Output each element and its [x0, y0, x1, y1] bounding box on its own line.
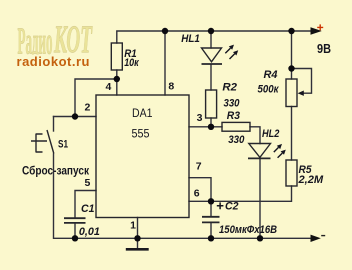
wire pin 6 node to C2 — [210, 201, 212, 216]
wire C2 to bottom rail — [210, 223, 212, 238]
svg-text:330: 330 — [228, 134, 245, 146]
node pin4 junction — [114, 76, 120, 82]
label - (minus terminal) — [321, 235, 325, 237]
svg-text:555: 555 — [132, 129, 150, 141]
svg-text:0,01: 0,01 — [79, 226, 100, 238]
resistor R5 — [286, 160, 297, 186]
wire R2 bottom to pin 3 node — [210, 118, 212, 127]
svg-text:2,2М: 2,2М — [297, 174, 324, 186]
resistor R1 — [111, 43, 122, 70]
svg-text:radiokot.ru: radiokot.ru — [17, 54, 90, 69]
svg-text:500к: 500к — [258, 84, 280, 96]
wire C1 to bottom rail — [74, 223, 76, 238]
minus supply arrow — [311, 235, 321, 242]
svg-text:C1: C1 — [81, 203, 94, 215]
node pin6 junction — [208, 198, 214, 204]
wire pin 6 stub to R5 bottom — [189, 186, 292, 201]
potentiometer R4 — [286, 79, 297, 107]
wire top rail +9V — [117, 31, 311, 43]
svg-text:S1: S1 — [58, 139, 68, 151]
svg-text:9В: 9В — [317, 42, 331, 56]
svg-text:7: 7 — [196, 161, 202, 173]
node R4 wiper junction — [288, 65, 294, 71]
svg-text:8: 8 — [168, 81, 174, 93]
svg-text:R2: R2 — [222, 82, 237, 94]
node C2 ground — [208, 235, 214, 241]
wire pin 8 to rail — [164, 31, 166, 95]
logo РадиоКОТ — [18, 18, 94, 63]
capacitor C1 — [64, 218, 86, 223]
wire pin 2 stub — [54, 116, 97, 118]
resistor R3 — [222, 122, 250, 131]
HL1 light arrows — [225, 45, 238, 59]
wire R4 wiper loop — [292, 69, 312, 94]
wire rail to HL1 anode — [210, 31, 212, 48]
svg-text:DA1: DA1 — [132, 108, 153, 120]
switch S1 — [31, 130, 54, 154]
wire pin 7 to pin 6 node — [189, 178, 211, 202]
node R4 on rail — [288, 28, 294, 34]
svg-text:C2: C2 — [225, 201, 239, 213]
node HL2 ground — [257, 235, 263, 241]
wire S1 lower contact + bottom rail — [54, 154, 311, 238]
wire pin 1 to ground — [137, 218, 139, 249]
wire HL1 cathode to R2 — [210, 65, 212, 91]
wire pin 3 stub to R3 — [189, 126, 222, 128]
capacitor C2 — [202, 217, 220, 223]
svg-text:4: 4 — [105, 81, 111, 93]
svg-text:6: 6 — [194, 187, 200, 199]
wire HL2 cathode to bottom rail — [259, 159, 261, 239]
svg-text:2: 2 — [84, 102, 90, 114]
node C1 ground — [72, 235, 78, 241]
wire pin 5 stub to C1 — [75, 191, 96, 218]
resistor R2 — [206, 90, 217, 118]
ground — [126, 248, 149, 251]
wire R4 to R5 — [291, 107, 293, 161]
LED HL1 — [202, 48, 222, 62]
svg-text:HL1: HL1 — [181, 33, 200, 45]
svg-text:3: 3 — [197, 112, 203, 124]
wire rail to R4 — [291, 31, 293, 79]
node HL1 on rail — [208, 28, 214, 34]
wire S1 upper contact — [53, 117, 55, 132]
svg-text:1: 1 — [130, 220, 136, 232]
wire R1 bottom to pin 4 — [116, 70, 118, 95]
node pin3 junction — [208, 124, 214, 130]
svg-text:Сброс-запуск: Сброс-запуск — [22, 163, 90, 177]
HL2 light arrows — [274, 144, 286, 158]
svg-text:330: 330 — [224, 98, 241, 110]
svg-text:150мкФх16В: 150мкФх16В — [219, 224, 277, 236]
svg-text:R3: R3 — [227, 110, 240, 122]
+9V supply arrow — [311, 27, 322, 34]
label + (plus terminal) — [317, 24, 323, 30]
node pin1 ground — [134, 235, 140, 241]
svg-text:R4: R4 — [264, 69, 278, 81]
LED HL2 — [249, 144, 271, 158]
IC DA1 555 timer — [96, 95, 189, 218]
node pin8 on rail — [162, 28, 168, 34]
wire pin4 node to pin2 node — [75, 79, 117, 117]
svg-text:5: 5 — [84, 177, 90, 189]
wire R3 to HL2 anode — [250, 127, 260, 144]
svg-text:10к: 10к — [124, 57, 140, 69]
node pin2 junction — [72, 113, 78, 119]
svg-text:HL2: HL2 — [262, 128, 279, 140]
